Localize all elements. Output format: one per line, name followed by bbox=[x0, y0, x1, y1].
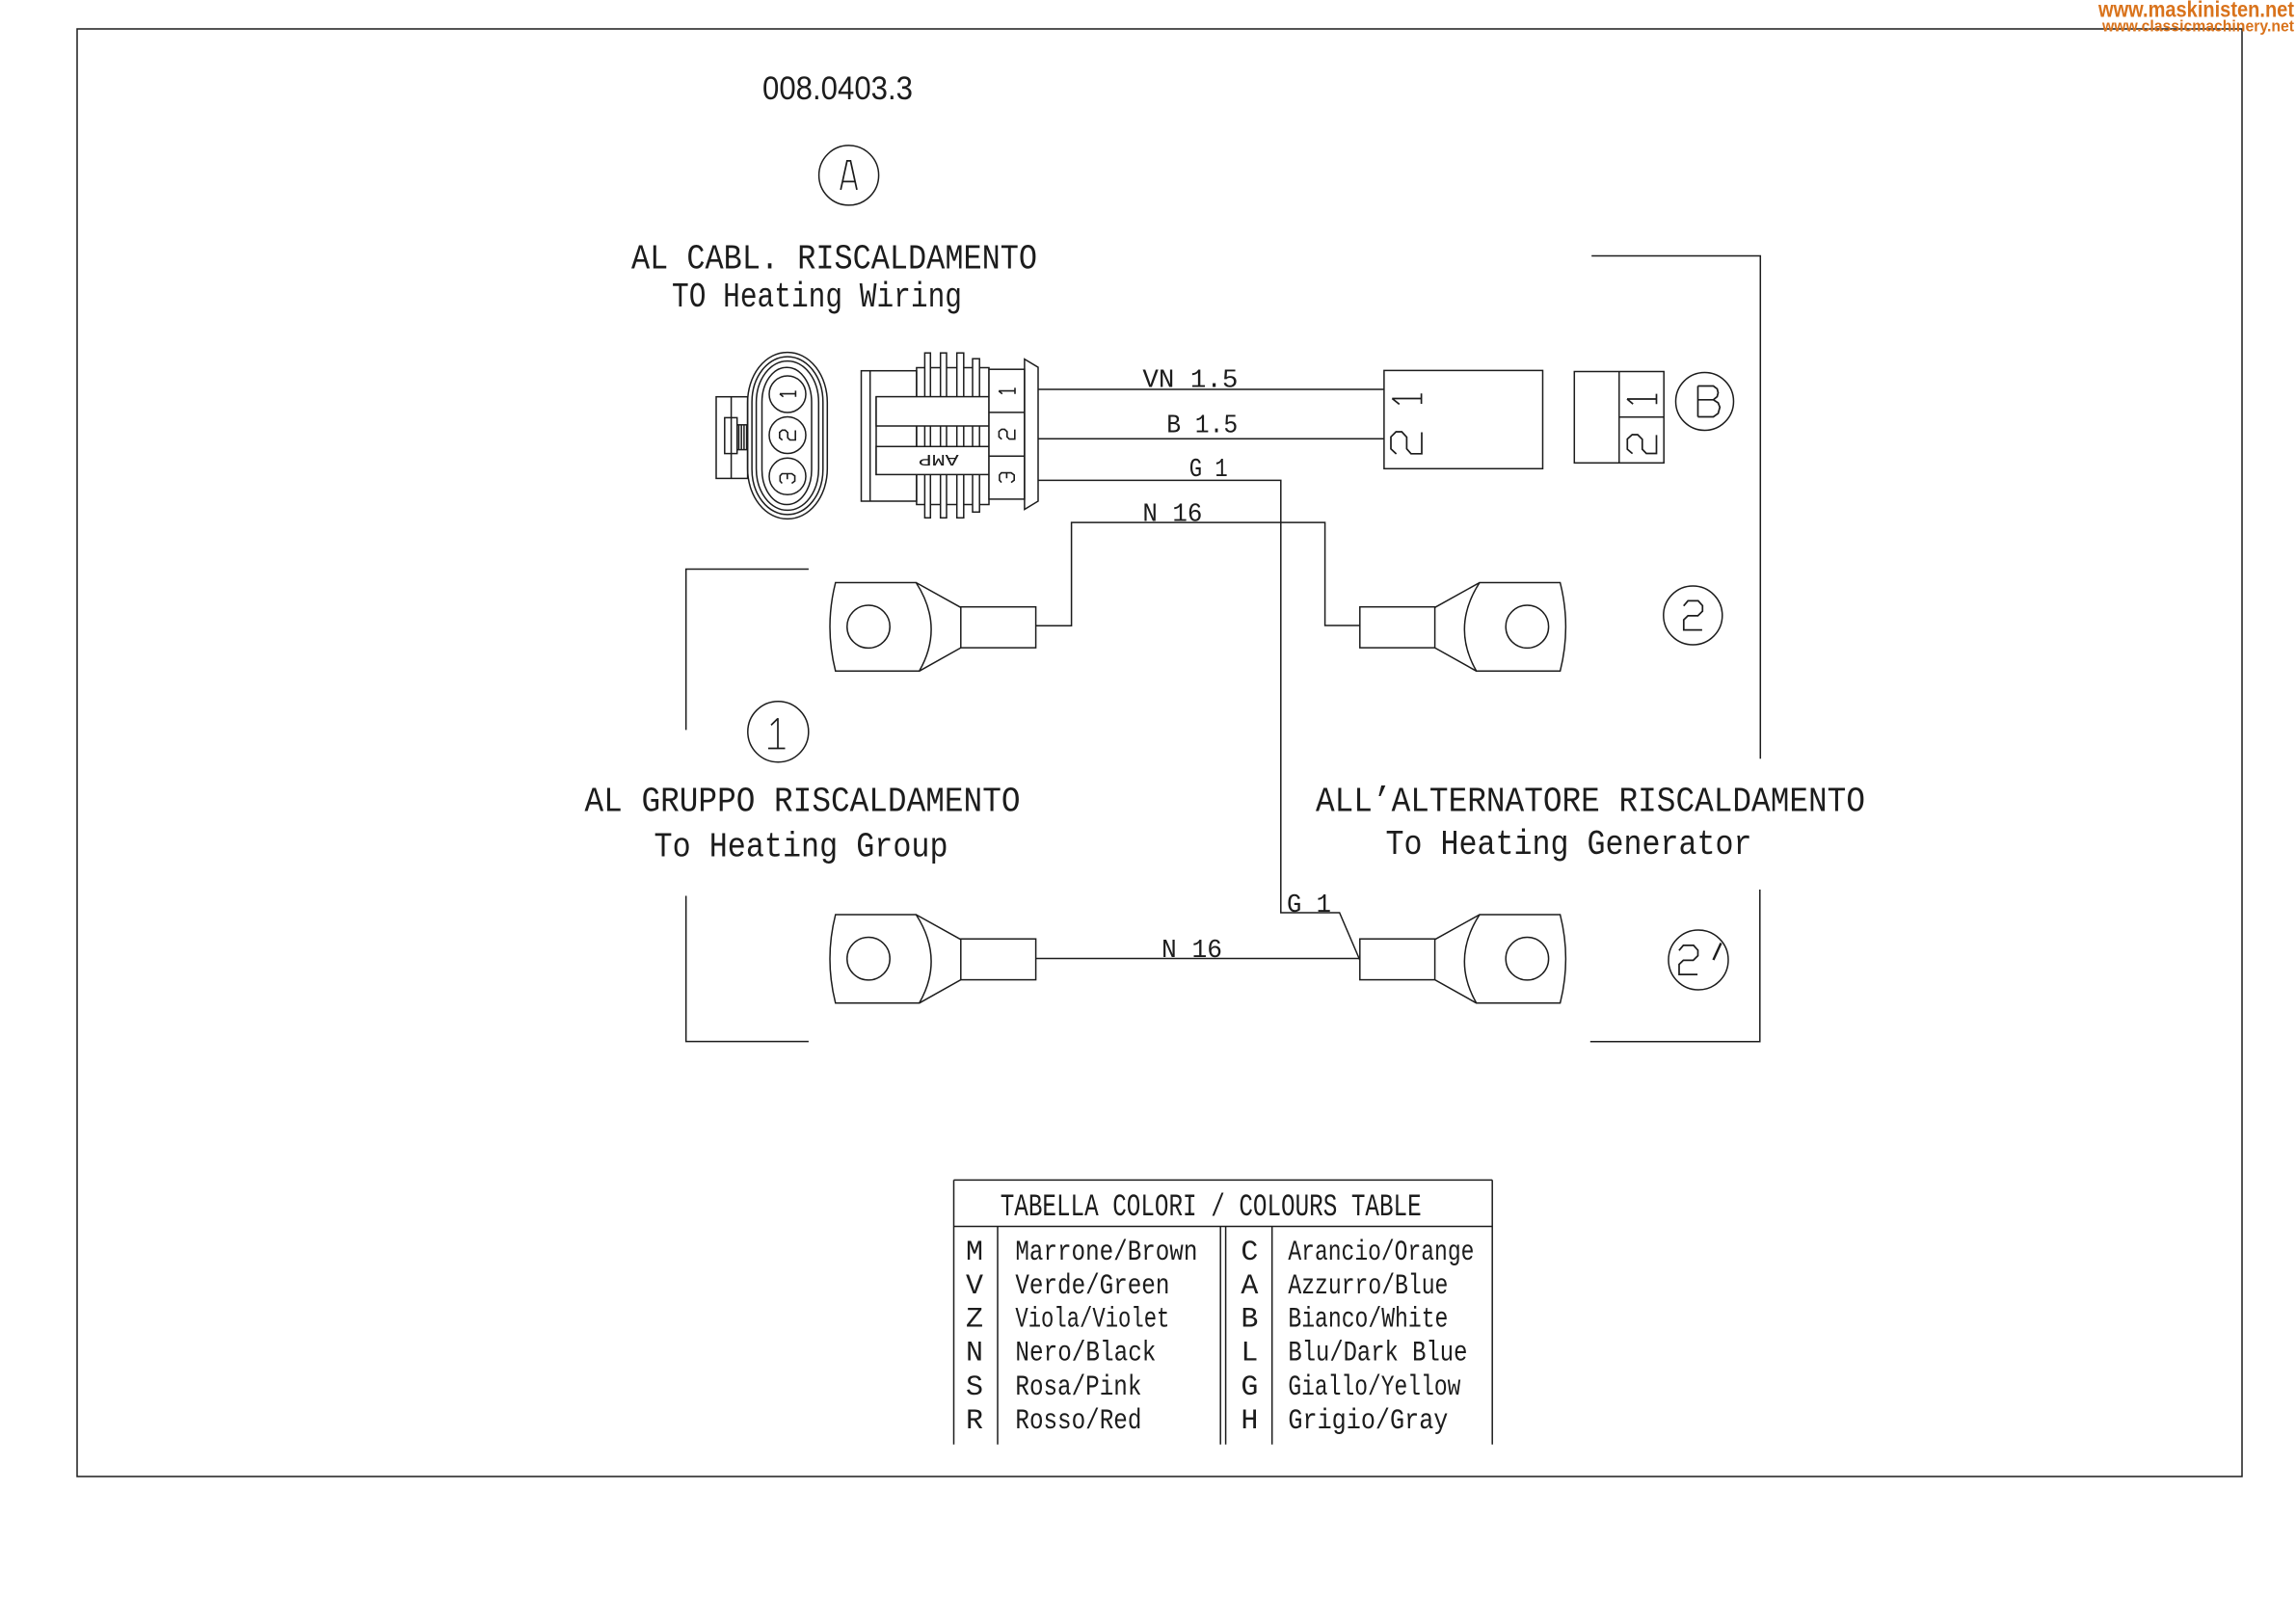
svg-text:A: A bbox=[1241, 1270, 1258, 1303]
svg-text:N 16: N 16 bbox=[1142, 501, 1202, 530]
svg-text:Marrone/Brown: Marrone/Brown bbox=[1015, 1237, 1197, 1269]
svg-text:Viola/Violet: Viola/Violet bbox=[1015, 1304, 1169, 1337]
svg-text:Rosso/Red: Rosso/Red bbox=[1015, 1405, 1141, 1438]
svg-text:Blu/Dark Blue: Blu/Dark Blue bbox=[1288, 1338, 1467, 1370]
svg-text:M: M bbox=[966, 1237, 983, 1269]
svg-text:TABELLA COLORI / COLOURS TABLE: TABELLA COLORI / COLOURS TABLE bbox=[1001, 1189, 1422, 1225]
svg-text:AL CABL. RISCALDAMENTO: AL CABL. RISCALDAMENTO bbox=[631, 240, 1037, 279]
svg-text:V: V bbox=[966, 1270, 983, 1303]
svg-text:Rosa/Pink: Rosa/Pink bbox=[1015, 1371, 1141, 1404]
svg-text:To Heating Generator: To Heating Generator bbox=[1386, 825, 1752, 865]
svg-text:TO Heating Wiring: TO Heating Wiring bbox=[672, 278, 962, 317]
svg-text:H: H bbox=[1241, 1405, 1258, 1438]
svg-text:AL GRUPPO RISCALDAMENTO: AL GRUPPO RISCALDAMENTO bbox=[585, 783, 1021, 822]
svg-text:B: B bbox=[1241, 1304, 1258, 1337]
svg-text:Giallo/Yellow: Giallo/Yellow bbox=[1288, 1371, 1460, 1404]
svg-text:R: R bbox=[966, 1405, 983, 1438]
svg-text:C: C bbox=[1241, 1237, 1258, 1269]
svg-text:Verde/Green: Verde/Green bbox=[1015, 1270, 1169, 1303]
svg-text:Nero/Black: Nero/Black bbox=[1015, 1338, 1156, 1370]
svg-text:008.0403.3: 008.0403.3 bbox=[762, 70, 913, 107]
svg-text:L: L bbox=[1241, 1338, 1258, 1370]
svg-text:Arancio/Orange: Arancio/Orange bbox=[1288, 1237, 1474, 1269]
svg-text:B 1.5: B 1.5 bbox=[1166, 412, 1238, 440]
svg-text:G 1: G 1 bbox=[1287, 891, 1331, 920]
svg-text:N 16: N 16 bbox=[1161, 937, 1222, 966]
svg-text:Z: Z bbox=[966, 1304, 983, 1337]
svg-text:Bianco/White: Bianco/White bbox=[1288, 1304, 1448, 1337]
svg-text:ALL’ALTERNATORE RISCALDAMENTO: ALL’ALTERNATORE RISCALDAMENTO bbox=[1316, 782, 1865, 821]
svg-text:Grigio/Gray: Grigio/Gray bbox=[1288, 1405, 1448, 1438]
svg-text:N: N bbox=[966, 1338, 983, 1370]
svg-text:www.classicmachinery.net: www.classicmachinery.net bbox=[2101, 17, 2294, 36]
svg-text:VN 1.5: VN 1.5 bbox=[1142, 366, 1238, 395]
svg-text:AMP: AMP bbox=[919, 449, 959, 467]
svg-text:S: S bbox=[966, 1371, 983, 1404]
svg-text:G: G bbox=[1241, 1371, 1258, 1404]
svg-text:G 1: G 1 bbox=[1189, 456, 1228, 485]
svg-text:Azzurro/Blue: Azzurro/Blue bbox=[1288, 1270, 1448, 1303]
svg-text:To Heating Group: To Heating Group bbox=[654, 828, 948, 867]
